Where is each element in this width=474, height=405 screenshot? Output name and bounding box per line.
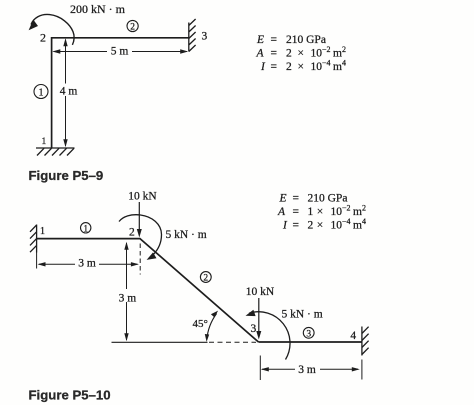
member 1 (horizontal node1-node2) (37, 238, 141, 240)
member label circled 2 (200, 272, 211, 284)
svg-text:1: 1 (40, 226, 45, 237)
45 degree angle arc (207, 314, 217, 340)
member 1 (vertical column node2-node1) (51, 37, 53, 148)
dimension 3 m vertical (drop of node 3) (115, 242, 139, 341)
svg-text:1: 1 (42, 137, 47, 147)
member label circled 1 (81, 223, 91, 234)
svg-text:3 m: 3 m (119, 292, 137, 304)
svg-text:2: 2 (130, 22, 135, 32)
svg-text:3 m: 3 m (298, 364, 316, 376)
svg-text:5 kN · m: 5 kN · m (282, 309, 323, 321)
svg-text:3: 3 (202, 31, 208, 43)
dashed reference line to node 3 (209, 341, 256, 343)
dimension 3 m horizontal (node1-node2) (37, 253, 139, 270)
angle arc arrowhead bottom (205, 334, 209, 342)
fixed support wall at node 4 (362, 327, 369, 356)
fixed support wall at node 3 (189, 19, 196, 52)
svg-text:200 kN · m: 200 kN · m (70, 2, 126, 16)
dashed projection line below node 2 (139, 244, 141, 275)
svg-text:10 kN: 10 kN (128, 191, 157, 203)
moment arc 5 kN·m at node 3 (249, 312, 290, 360)
properties text block P5-9 (256, 34, 346, 73)
svg-text:3: 3 (306, 329, 311, 339)
svg-text:2: 2 (203, 274, 208, 284)
svg-text:2: 2 (40, 31, 46, 45)
load 10 kN at node 3 (246, 286, 275, 340)
member label circled 2 (127, 20, 138, 32)
svg-text:1: 1 (83, 223, 88, 233)
svg-text:5 m: 5 m (111, 46, 129, 58)
svg-text:I=2×10−4m4: I=2×10−4m4 (260, 59, 346, 74)
member label circled 3 (303, 327, 314, 339)
moment arrowhead (29, 20, 38, 31)
properties text block P5-10 (277, 193, 366, 232)
member 2 (inclined node2-node3) (140, 239, 259, 342)
dimension 3 m (node3-node4) (260, 356, 362, 381)
svg-text:Figure P5–10: Figure P5–10 (29, 388, 111, 403)
svg-text:10 kN: 10 kN (246, 286, 275, 298)
svg-text:3: 3 (251, 323, 257, 335)
member 2 (horizontal beam node2-node3) (51, 37, 189, 39)
moment arc 200 kN·m at node 2 (31, 14, 74, 44)
angle arc arrowhead top (211, 311, 218, 318)
svg-text:2: 2 (129, 227, 135, 239)
load 10 kN at node 2 (128, 191, 157, 238)
horizontal reference line at node 3 level (112, 341, 208, 343)
dimension 5 m (52, 45, 188, 58)
member 3 (horizontal node3-node4) (259, 341, 363, 343)
svg-text:1: 1 (39, 87, 44, 98)
dimension 4 m (57, 38, 79, 147)
member label circled 1 (34, 85, 48, 99)
svg-text:3 m: 3 m (78, 257, 96, 269)
svg-text:5 kN · m: 5 kN · m (166, 229, 207, 241)
moment arc 5 kN·m at node 2 (119, 215, 162, 258)
svg-text:45°: 45° (193, 318, 208, 330)
fixed support wall at node 1 (30, 225, 37, 253)
svg-text:Figure P5–9: Figure P5–9 (29, 168, 104, 183)
fixed support ground at node 1 (36, 148, 75, 156)
moment arrowhead node 3 (246, 310, 256, 316)
moment arrowhead node 2 (147, 252, 157, 260)
svg-text:4: 4 (350, 330, 356, 342)
svg-text:4 m: 4 m (60, 86, 78, 98)
